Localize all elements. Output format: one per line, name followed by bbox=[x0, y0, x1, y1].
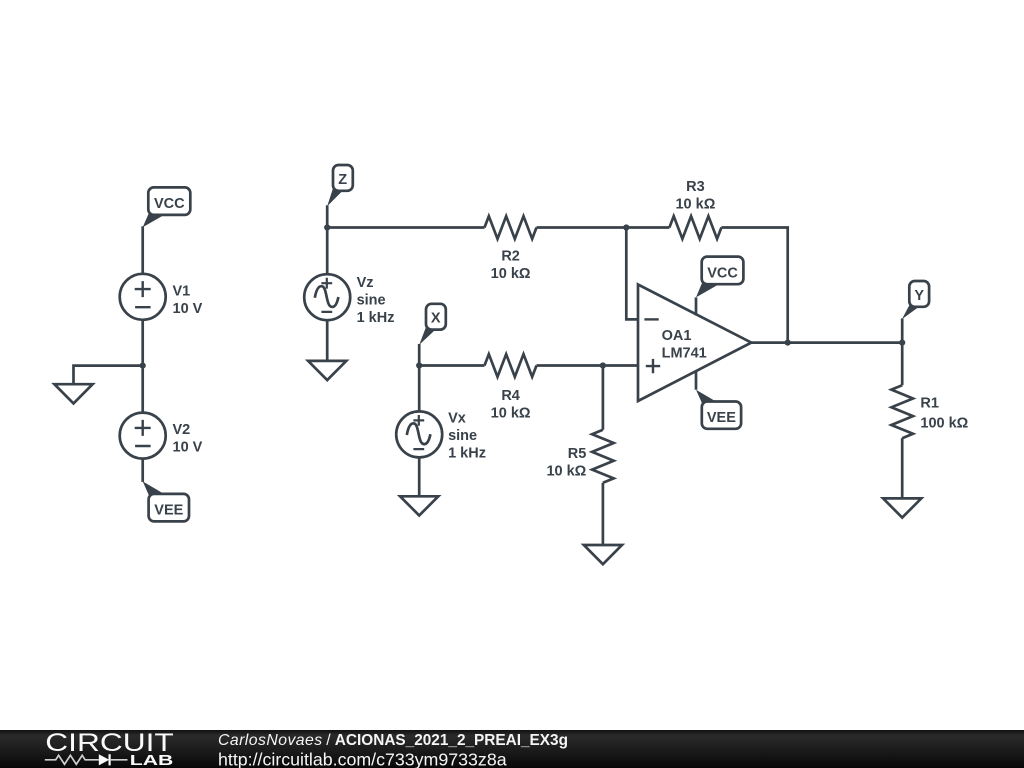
svg-text:http://circuitlab.com/c733ym97: http://circuitlab.com/c733ym9733z8a bbox=[218, 749, 507, 768]
wire feedback junction to op-amp inverting input bbox=[626, 228, 638, 320]
ground (left supply) bbox=[54, 384, 92, 403]
ground (Vx) bbox=[400, 496, 438, 515]
wire op-amp output to node Y bbox=[751, 341, 902, 344]
svg-text:V2: V2 bbox=[173, 422, 191, 438]
node Z label bbox=[327, 165, 353, 206]
wire Vx to ground bbox=[418, 457, 421, 496]
node Y label bbox=[902, 281, 929, 319]
svg-text:VCC: VCC bbox=[154, 196, 185, 212]
wire X to junction bbox=[418, 344, 421, 366]
wire VCC to V1 bbox=[141, 226, 144, 274]
svg-text:R4: R4 bbox=[501, 388, 520, 404]
svg-text:sine: sine bbox=[357, 293, 386, 309]
resistor R4 bbox=[485, 354, 537, 377]
svg-text:OA1: OA1 bbox=[662, 328, 692, 344]
wire op-amp VEE pin bbox=[695, 371, 698, 390]
svg-text:Z: Z bbox=[338, 172, 347, 188]
svg-text:10 kΩ: 10 kΩ bbox=[491, 406, 531, 422]
wire Z junction to Vz bbox=[326, 228, 329, 275]
svg-text:10 kΩ: 10 kΩ bbox=[546, 463, 586, 479]
op-amp OA1 LM741 bbox=[638, 285, 751, 402]
svg-text:Vx: Vx bbox=[448, 411, 466, 427]
voltage source Vx (sine) bbox=[396, 411, 442, 457]
svg-text:10 V: 10 V bbox=[173, 301, 203, 317]
junction node X bbox=[416, 362, 422, 368]
footer title text bbox=[218, 732, 568, 749]
wire junction to V2 bbox=[141, 366, 144, 413]
ground (Vz) bbox=[308, 361, 346, 380]
wire Vz to ground bbox=[326, 320, 329, 361]
node X label bbox=[419, 304, 446, 345]
wire R5 to ground bbox=[602, 483, 605, 545]
svg-text:VEE: VEE bbox=[707, 410, 736, 426]
wire junction to ground bbox=[74, 366, 143, 385]
junction between V1 and V2 bbox=[140, 363, 146, 369]
power flag VEE (op-amp) bbox=[696, 390, 741, 429]
svg-text:LAB: LAB bbox=[130, 753, 174, 768]
ground (R5) bbox=[584, 545, 622, 564]
svg-text:CarlosNovaes: CarlosNovaes bbox=[218, 732, 323, 749]
resistor R5 bbox=[592, 430, 614, 483]
voltage source Vz (sine) bbox=[304, 274, 350, 320]
svg-text:Y: Y bbox=[914, 288, 924, 304]
svg-text:sine: sine bbox=[448, 428, 477, 444]
junction feedback node bbox=[623, 224, 629, 230]
junction node Y bbox=[899, 340, 905, 346]
wire X junction to Vx bbox=[418, 366, 421, 412]
wire R3 to output bbox=[721, 228, 787, 343]
wire Z to junction bbox=[326, 205, 329, 227]
svg-text:R1: R1 bbox=[920, 396, 939, 412]
power flag VCC (op-amp) bbox=[696, 257, 743, 298]
svg-text:R5: R5 bbox=[568, 446, 587, 462]
voltage source V2 bbox=[120, 413, 166, 459]
wire R4 to op-amp noninverting input bbox=[537, 364, 639, 367]
wire junction to R5 bbox=[602, 366, 605, 430]
svg-text:/: / bbox=[326, 732, 331, 749]
svg-text:ACIONAS_2021_2_PREAI_EX3g: ACIONAS_2021_2_PREAI_EX3g bbox=[335, 732, 568, 749]
svg-text:100 kΩ: 100 kΩ bbox=[920, 416, 968, 432]
wire Y junction to R1 bbox=[901, 343, 904, 386]
svg-text:LM741: LM741 bbox=[662, 346, 707, 362]
svg-text:R3: R3 bbox=[686, 179, 705, 195]
footer bar bbox=[0, 730, 1024, 768]
CircuitLab logo resistor-diode glyph bbox=[45, 754, 128, 765]
svg-text:10 kΩ: 10 kΩ bbox=[491, 266, 531, 282]
ground (R1) bbox=[883, 498, 921, 517]
svg-text:VEE: VEE bbox=[154, 502, 183, 518]
resistor R2 bbox=[485, 216, 537, 239]
wire R1 to ground bbox=[901, 438, 904, 498]
junction node Z bbox=[324, 224, 330, 230]
wire R2 to feedback junction bbox=[537, 226, 670, 229]
wire X junction to R4 bbox=[419, 364, 484, 367]
svg-text:10 kΩ: 10 kΩ bbox=[675, 197, 715, 213]
resistor R1 bbox=[891, 385, 913, 438]
voltage source V1 bbox=[120, 274, 166, 320]
svg-text:Vz: Vz bbox=[357, 275, 374, 291]
svg-text:X: X bbox=[431, 311, 441, 327]
svg-text:1 kHz: 1 kHz bbox=[448, 446, 486, 462]
wire Z junction to R2 bbox=[327, 226, 484, 229]
wire Y to junction bbox=[901, 319, 904, 343]
junction output feedback bbox=[785, 340, 791, 346]
svg-text:R2: R2 bbox=[501, 249, 520, 265]
wire V2 to VEE bbox=[141, 459, 144, 482]
power flag VCC (left supply) bbox=[143, 187, 191, 227]
wire V1 to junction bbox=[141, 320, 144, 366]
svg-text:10 V: 10 V bbox=[173, 440, 203, 456]
wire op-amp VCC pin bbox=[695, 297, 698, 315]
resistor R3 bbox=[669, 216, 721, 239]
svg-text:VCC: VCC bbox=[707, 265, 738, 281]
svg-text:V1: V1 bbox=[173, 284, 191, 300]
junction R4 R5 bbox=[600, 362, 606, 368]
svg-text:1 kHz: 1 kHz bbox=[357, 310, 395, 326]
power flag VEE (left supply) bbox=[143, 481, 189, 521]
